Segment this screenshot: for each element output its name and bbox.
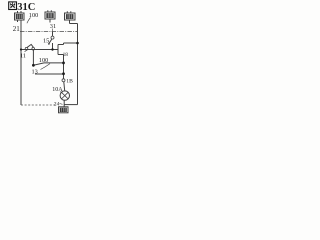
svg-text:15: 15 <box>43 38 49 45</box>
svg-text:100: 100 <box>39 57 48 64</box>
svg-text:24: 24 <box>54 101 60 107</box>
svg-text:100: 100 <box>29 12 38 19</box>
svg-text:31: 31 <box>50 23 56 30</box>
svg-text:10A: 10A <box>52 87 63 93</box>
svg-text:21: 21 <box>13 25 20 33</box>
svg-text:1B: 1B <box>66 79 73 85</box>
svg-text:18: 18 <box>63 52 69 58</box>
svg-text:13: 13 <box>32 69 38 76</box>
svg-text:11: 11 <box>20 53 26 60</box>
